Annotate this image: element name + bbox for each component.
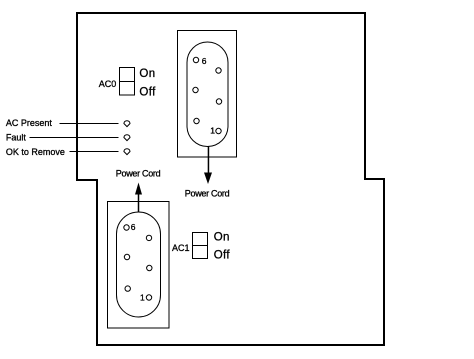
svg-text:1: 1 (210, 126, 215, 136)
svg-text:Off: Off (139, 86, 156, 98)
svg-text:On: On (214, 232, 230, 244)
svg-text:Off: Off (214, 250, 231, 262)
svg-text:OK to Remove: OK to Remove (6, 147, 65, 157)
svg-text:6: 6 (131, 222, 136, 232)
svg-text:1: 1 (140, 293, 145, 303)
svg-text:On: On (139, 68, 155, 80)
svg-text:AC1: AC1 (172, 243, 190, 253)
svg-text:AC Present: AC Present (6, 118, 53, 128)
svg-text:Fault: Fault (6, 132, 27, 142)
svg-text:6: 6 (202, 56, 207, 66)
svg-text:AC0: AC0 (99, 79, 117, 89)
svg-text:Power Cord: Power Cord (116, 169, 161, 179)
svg-text:Power Cord: Power Cord (185, 189, 230, 199)
